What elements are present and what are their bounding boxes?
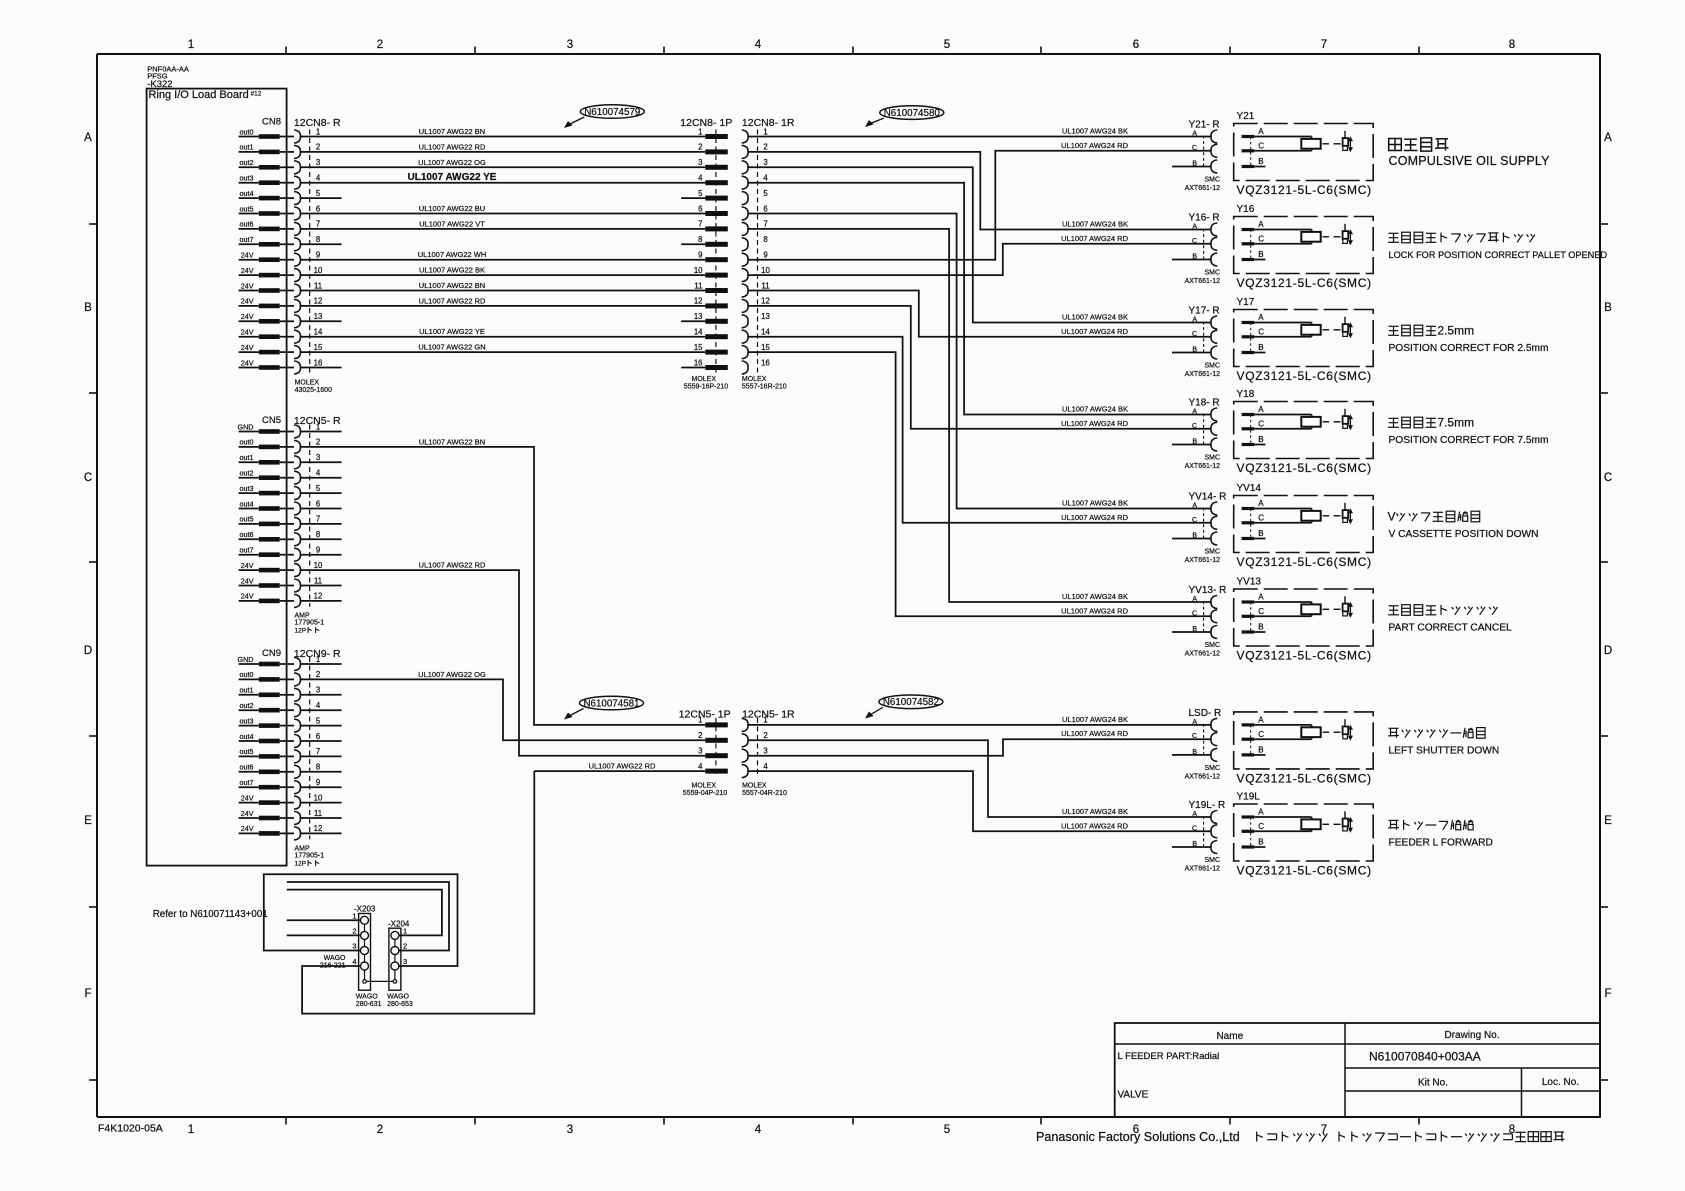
svg-text:UL1007 AWG22 YE: UL1007 AWG22 YE xyxy=(419,327,485,336)
svg-text:Y16- R: Y16- R xyxy=(1189,213,1220,224)
svg-text:15: 15 xyxy=(314,343,323,352)
svg-text:C: C xyxy=(1258,514,1264,523)
svg-text:F: F xyxy=(84,988,91,1000)
svg-text:1: 1 xyxy=(763,127,767,136)
svg-text:3: 3 xyxy=(316,453,320,462)
svg-text:C: C xyxy=(1258,235,1264,244)
svg-text:A: A xyxy=(1258,127,1264,136)
svg-text:7: 7 xyxy=(316,747,320,756)
svg-text:C: C xyxy=(1258,142,1264,151)
svg-text:N610074579: N610074579 xyxy=(584,107,640,118)
svg-text:2: 2 xyxy=(763,731,767,740)
svg-text:1: 1 xyxy=(698,127,702,136)
svg-text:15: 15 xyxy=(761,343,770,352)
svg-text:out6: out6 xyxy=(240,530,254,539)
svg-text:1: 1 xyxy=(188,39,194,51)
svg-text:B: B xyxy=(1258,343,1263,352)
svg-text:out4: out4 xyxy=(240,189,254,198)
svg-text:8: 8 xyxy=(698,235,702,244)
svg-text:SMC: SMC xyxy=(1204,765,1220,772)
svg-text:UL1007 AWG22 RD: UL1007 AWG22 RD xyxy=(419,296,486,305)
svg-text:UL1007 AWG22 RD: UL1007 AWG22 RD xyxy=(589,762,656,771)
svg-text:UL1007 AWG24 RD: UL1007 AWG24 RD xyxy=(1061,141,1128,150)
svg-text:24V: 24V xyxy=(241,793,254,802)
svg-text:7.5mm: 7.5mm xyxy=(1437,415,1474,429)
svg-text:Name: Name xyxy=(1216,1031,1243,1042)
svg-text:VQZ3121-5L-C6(SMC): VQZ3121-5L-C6(SMC) xyxy=(1237,555,1372,569)
svg-text:9: 9 xyxy=(316,778,320,787)
svg-text:3: 3 xyxy=(698,747,702,756)
svg-text:2: 2 xyxy=(316,143,320,152)
svg-text:24V: 24V xyxy=(241,281,254,290)
svg-text:AXT661-12: AXT661-12 xyxy=(1185,866,1221,873)
svg-text:4: 4 xyxy=(763,174,768,183)
svg-text:2: 2 xyxy=(377,39,383,51)
svg-text:9: 9 xyxy=(763,251,767,260)
svg-text:SMC: SMC xyxy=(1204,363,1220,370)
svg-text:2: 2 xyxy=(316,670,320,679)
svg-text:13: 13 xyxy=(314,312,323,321)
svg-text:UL1007 AWG22 RD: UL1007 AWG22 RD xyxy=(419,142,486,151)
svg-text:CN8: CN8 xyxy=(262,117,281,128)
svg-text:out7: out7 xyxy=(240,235,254,244)
svg-text:UL1007 AWG24 RD: UL1007 AWG24 RD xyxy=(1061,729,1128,738)
svg-text:7: 7 xyxy=(316,515,320,524)
svg-text:1: 1 xyxy=(188,1124,194,1136)
svg-text:SMC: SMC xyxy=(1204,857,1220,864)
svg-text:C: C xyxy=(84,472,92,484)
svg-text:L FEEDER PART:Radial: L FEEDER PART:Radial xyxy=(1118,1051,1220,1062)
svg-text:UL1007 AWG22 BN: UL1007 AWG22 BN xyxy=(419,437,485,446)
svg-text:UL1007 AWG24 BK: UL1007 AWG24 BK xyxy=(1062,715,1128,724)
svg-text:5: 5 xyxy=(763,189,768,198)
svg-text:7: 7 xyxy=(698,220,702,229)
svg-text:Y18- R: Y18- R xyxy=(1189,398,1220,409)
svg-text:#12: #12 xyxy=(251,91,262,98)
svg-text:8: 8 xyxy=(316,235,320,244)
svg-text:8: 8 xyxy=(1509,39,1515,51)
svg-text:11: 11 xyxy=(314,281,322,290)
svg-text:F: F xyxy=(1604,988,1611,1000)
svg-text:24V: 24V xyxy=(241,809,254,818)
svg-text:B: B xyxy=(1258,746,1263,755)
svg-text:12CN5- 1P: 12CN5- 1P xyxy=(679,709,731,721)
svg-text:5: 5 xyxy=(944,39,950,51)
svg-text:6: 6 xyxy=(316,499,320,508)
svg-text:C: C xyxy=(1604,472,1612,484)
svg-text:PART CORRECT CANCEL: PART CORRECT CANCEL xyxy=(1389,623,1513,634)
svg-text:VQZ3121-5L-C6(SMC): VQZ3121-5L-C6(SMC) xyxy=(1237,649,1372,663)
svg-text:UL1007 AWG24 BK: UL1007 AWG24 BK xyxy=(1062,220,1128,229)
svg-text:Panasonic Factory Solutions Co: Panasonic Factory Solutions Co.,Ltd xyxy=(1036,1130,1240,1144)
svg-text:7: 7 xyxy=(316,220,320,229)
svg-text:out5: out5 xyxy=(240,747,254,756)
svg-text:A: A xyxy=(1604,132,1612,144)
svg-text:Kit No.: Kit No. xyxy=(1418,1078,1448,1089)
svg-text:UL1007 AWG24 RD: UL1007 AWG24 RD xyxy=(1061,606,1128,615)
svg-text:VQZ3121-5L-C6(SMC): VQZ3121-5L-C6(SMC) xyxy=(1237,369,1372,383)
svg-text:280-631: 280-631 xyxy=(356,1001,382,1008)
svg-text:2: 2 xyxy=(377,1124,383,1136)
svg-text:24V: 24V xyxy=(241,266,254,275)
svg-text:Y17: Y17 xyxy=(1237,297,1255,308)
svg-text:8: 8 xyxy=(316,763,320,772)
svg-text:3: 3 xyxy=(316,686,320,695)
svg-text:VQZ3121-5L-C6(SMC): VQZ3121-5L-C6(SMC) xyxy=(1237,771,1372,785)
svg-text:N610074581: N610074581 xyxy=(583,698,639,709)
svg-text:out1: out1 xyxy=(240,453,254,462)
svg-text:Y21- R: Y21- R xyxy=(1189,120,1220,131)
svg-text:VQZ3121-5L-C6(SMC): VQZ3121-5L-C6(SMC) xyxy=(1237,864,1372,878)
svg-text:4: 4 xyxy=(352,957,356,966)
svg-text:out5: out5 xyxy=(240,515,254,524)
svg-text:1: 1 xyxy=(316,127,320,136)
svg-text:WAGO: WAGO xyxy=(324,955,346,962)
svg-text:24V: 24V xyxy=(241,312,254,321)
svg-text:12: 12 xyxy=(694,297,703,306)
svg-text:24V: 24V xyxy=(241,328,254,337)
svg-text:out0: out0 xyxy=(240,127,254,136)
svg-text:out2: out2 xyxy=(240,701,254,710)
svg-text:Y19L- R: Y19L- R xyxy=(1189,800,1226,811)
svg-text:12P: 12P xyxy=(295,860,307,867)
svg-text:8: 8 xyxy=(763,235,767,244)
svg-text:YV13: YV13 xyxy=(1237,577,1262,588)
svg-text:43025-1600: 43025-1600 xyxy=(295,387,332,394)
svg-text:A: A xyxy=(1258,313,1264,322)
svg-text:LSD- R: LSD- R xyxy=(1189,708,1222,719)
svg-text:A: A xyxy=(1258,808,1264,817)
svg-text:VALVE: VALVE xyxy=(1118,1090,1149,1101)
svg-text:24V: 24V xyxy=(241,592,254,601)
svg-text:B: B xyxy=(1258,529,1263,538)
svg-text:10: 10 xyxy=(694,266,703,275)
svg-text:24V: 24V xyxy=(241,824,254,833)
svg-text:UL1007 AWG24 BK: UL1007 AWG24 BK xyxy=(1062,807,1128,816)
svg-text:E: E xyxy=(84,815,92,827)
svg-text:UL1007 AWG24 BK: UL1007 AWG24 BK xyxy=(1062,127,1128,136)
svg-text:AXT661-12: AXT661-12 xyxy=(1185,557,1221,564)
svg-text:2: 2 xyxy=(352,927,356,936)
svg-text:V: V xyxy=(1388,509,1396,523)
svg-text:YV13- R: YV13- R xyxy=(1189,585,1227,596)
svg-text:MOLEX: MOLEX xyxy=(692,783,717,790)
svg-text:4: 4 xyxy=(316,701,321,710)
svg-text:VQZ3121-5L-C6(SMC): VQZ3121-5L-C6(SMC) xyxy=(1237,183,1372,197)
svg-text:5557-16R-210: 5557-16R-210 xyxy=(742,383,787,390)
svg-text:3: 3 xyxy=(698,158,702,167)
svg-text:CN5: CN5 xyxy=(262,415,281,426)
svg-text:5557-04R-210: 5557-04R-210 xyxy=(742,790,787,797)
svg-text:out7: out7 xyxy=(240,546,254,555)
svg-text:COMPULSIVE OIL SUPPLY: COMPULSIVE OIL SUPPLY xyxy=(1389,154,1551,168)
svg-text:10: 10 xyxy=(761,266,770,275)
svg-text:out4: out4 xyxy=(240,732,254,741)
svg-text:5: 5 xyxy=(316,189,321,198)
svg-text:5: 5 xyxy=(316,716,321,725)
svg-text:Refer to N610071143+001: Refer to N610071143+001 xyxy=(153,909,268,920)
svg-text:A: A xyxy=(1258,405,1264,414)
svg-text:8: 8 xyxy=(316,530,320,539)
svg-text:9: 9 xyxy=(316,546,320,555)
svg-text:2: 2 xyxy=(403,942,407,951)
svg-text:1: 1 xyxy=(763,716,767,725)
svg-text:C: C xyxy=(1258,420,1264,429)
svg-text:Y21: Y21 xyxy=(1237,111,1255,122)
svg-text:UL1007 AWG24 BK: UL1007 AWG24 BK xyxy=(1062,405,1128,414)
svg-text:SMC: SMC xyxy=(1204,549,1220,556)
svg-text:UL1007 AWG22 OG: UL1007 AWG22 OG xyxy=(418,158,486,167)
svg-text:B: B xyxy=(84,302,92,314)
svg-text:C: C xyxy=(1258,822,1264,831)
svg-text:AXT661-12: AXT661-12 xyxy=(1185,463,1221,470)
svg-text:F4K1020-05A: F4K1020-05A xyxy=(98,1123,163,1135)
svg-text:4: 4 xyxy=(763,762,768,771)
svg-text:AXT661-12: AXT661-12 xyxy=(1185,651,1221,658)
svg-text:B: B xyxy=(1258,250,1263,259)
svg-text:Y16: Y16 xyxy=(1237,204,1255,215)
svg-text:B: B xyxy=(1258,838,1263,847)
svg-text:5: 5 xyxy=(316,484,321,493)
svg-text:10: 10 xyxy=(314,793,323,802)
svg-text:out6: out6 xyxy=(240,220,254,229)
svg-text:A: A xyxy=(84,132,92,144)
svg-text:AXT661-12: AXT661-12 xyxy=(1185,371,1221,378)
svg-text:14: 14 xyxy=(761,328,770,337)
svg-text:9: 9 xyxy=(698,251,702,260)
svg-text:15: 15 xyxy=(694,343,703,352)
svg-text:2: 2 xyxy=(698,731,702,740)
svg-text:24V: 24V xyxy=(241,358,254,367)
svg-text:A: A xyxy=(1258,499,1264,508)
svg-text:12P: 12P xyxy=(295,627,307,634)
svg-text:4: 4 xyxy=(698,762,703,771)
svg-text:14: 14 xyxy=(694,328,703,337)
svg-text:V CASSETTE POSITION DOWN: V CASSETTE POSITION DOWN xyxy=(1389,529,1539,540)
svg-text:WAGO: WAGO xyxy=(387,994,409,1001)
svg-text:3: 3 xyxy=(352,942,356,951)
svg-text:6: 6 xyxy=(316,204,320,213)
svg-text:177905-1: 177905-1 xyxy=(295,853,325,860)
svg-text:10: 10 xyxy=(314,266,323,275)
svg-text:UL1007 AWG22 VT: UL1007 AWG22 VT xyxy=(419,219,485,228)
svg-text:4: 4 xyxy=(316,174,321,183)
svg-text:UL1007 AWG22 BU: UL1007 AWG22 BU xyxy=(419,204,485,213)
svg-text:7: 7 xyxy=(763,220,767,229)
svg-text:CN9: CN9 xyxy=(262,648,281,659)
svg-text:12CN8- 1R: 12CN8- 1R xyxy=(742,117,795,129)
svg-text:B: B xyxy=(1258,623,1263,632)
svg-text:WAGO: WAGO xyxy=(356,994,378,1001)
svg-text:C: C xyxy=(1258,730,1264,739)
svg-text:UL1007 AWG22 GN: UL1007 AWG22 GN xyxy=(418,343,485,352)
svg-text:12: 12 xyxy=(314,592,323,601)
svg-text:SMC: SMC xyxy=(1204,270,1220,277)
svg-text:out7: out7 xyxy=(240,778,254,787)
svg-text:13: 13 xyxy=(694,312,703,321)
svg-text:16: 16 xyxy=(761,358,770,367)
svg-text:E: E xyxy=(1604,815,1612,827)
svg-text:A: A xyxy=(1258,716,1264,725)
svg-text:A: A xyxy=(1258,220,1264,229)
svg-text:12: 12 xyxy=(314,297,323,306)
svg-text:4: 4 xyxy=(316,469,321,478)
svg-text:Y18: Y18 xyxy=(1237,389,1255,400)
svg-text:280-653: 280-653 xyxy=(387,1001,413,1008)
svg-text:UL1007 AWG22 BN: UL1007 AWG22 BN xyxy=(419,281,485,290)
svg-text:D: D xyxy=(1604,645,1612,657)
svg-text:out3: out3 xyxy=(240,174,254,183)
svg-text:5: 5 xyxy=(698,189,703,198)
svg-text:24V: 24V xyxy=(241,576,254,585)
svg-text:24V: 24V xyxy=(241,297,254,306)
svg-text:AXT661-12: AXT661-12 xyxy=(1185,185,1221,192)
svg-text:POSITION CORRECT FOR 2.5mm: POSITION CORRECT FOR 2.5mm xyxy=(1389,343,1549,354)
svg-text:GND: GND xyxy=(238,422,254,431)
svg-text:10: 10 xyxy=(314,561,323,570)
svg-text:out3: out3 xyxy=(240,716,254,725)
svg-text:177905-1: 177905-1 xyxy=(295,620,325,627)
svg-text:D: D xyxy=(84,645,92,657)
svg-text:VQZ3121-5L-C6(SMC): VQZ3121-5L-C6(SMC) xyxy=(1237,276,1372,290)
svg-text:N610070840+003AA: N610070840+003AA xyxy=(1369,1050,1481,1064)
svg-text:A: A xyxy=(1258,593,1264,602)
svg-text:SMC: SMC xyxy=(1204,642,1220,649)
svg-text:6: 6 xyxy=(316,732,320,741)
svg-text:UL1007 AWG24 RD: UL1007 AWG24 RD xyxy=(1061,234,1128,243)
svg-text:N610074582: N610074582 xyxy=(883,697,939,708)
svg-text:MOLEX: MOLEX xyxy=(742,376,767,383)
svg-text:UL1007 AWG24 RD: UL1007 AWG24 RD xyxy=(1061,513,1128,522)
svg-text:5559-16P-210: 5559-16P-210 xyxy=(684,383,728,390)
svg-text:MOLEX: MOLEX xyxy=(692,376,717,383)
svg-text:UL1007 AWG22 OG: UL1007 AWG22 OG xyxy=(418,670,486,679)
svg-text:UL1007 AWG24 RD: UL1007 AWG24 RD xyxy=(1061,821,1128,830)
svg-text:C: C xyxy=(1258,607,1264,616)
svg-text:4: 4 xyxy=(698,174,703,183)
svg-text:out6: out6 xyxy=(240,763,254,772)
svg-text:11: 11 xyxy=(694,281,702,290)
svg-text:4: 4 xyxy=(755,39,762,51)
svg-text:9: 9 xyxy=(316,251,320,260)
svg-text:UL1007 AWG22 WH: UL1007 AWG22 WH xyxy=(418,250,487,259)
svg-text:GND: GND xyxy=(238,655,254,664)
svg-text:24V: 24V xyxy=(241,561,254,570)
svg-text:UL1007 AWG24 RD: UL1007 AWG24 RD xyxy=(1061,419,1128,428)
svg-text:3: 3 xyxy=(403,957,407,966)
svg-text:Ring I/O Load Board: Ring I/O Load Board xyxy=(149,89,249,101)
svg-text:3: 3 xyxy=(567,1124,573,1136)
svg-text:UL1007 AWG24 BK: UL1007 AWG24 BK xyxy=(1062,313,1128,322)
svg-text:AXT661-12: AXT661-12 xyxy=(1185,773,1221,780)
svg-text:MOLEX: MOLEX xyxy=(742,783,767,790)
svg-text:1: 1 xyxy=(698,716,702,725)
svg-text:4: 4 xyxy=(755,1124,762,1136)
svg-text:-X204: -X204 xyxy=(388,920,410,929)
svg-text:LOCK FOR POSITION CORRECT PALL: LOCK FOR POSITION CORRECT PALLET OPENED xyxy=(1389,250,1608,260)
svg-text:out5: out5 xyxy=(240,204,254,213)
svg-text:12: 12 xyxy=(761,297,770,306)
svg-text:out1: out1 xyxy=(240,143,254,152)
svg-text:3: 3 xyxy=(567,39,573,51)
svg-text:16: 16 xyxy=(314,358,323,367)
svg-text:24V: 24V xyxy=(241,251,254,260)
svg-text:B: B xyxy=(1604,302,1612,314)
svg-text:UL1007 AWG24 RD: UL1007 AWG24 RD xyxy=(1061,327,1128,336)
svg-text:-X203: -X203 xyxy=(354,905,376,914)
svg-text:6: 6 xyxy=(763,204,767,213)
svg-text:11: 11 xyxy=(761,281,769,290)
svg-text:out1: out1 xyxy=(240,686,254,695)
svg-text:11: 11 xyxy=(314,809,322,818)
svg-text:14: 14 xyxy=(314,328,323,337)
svg-text:2: 2 xyxy=(763,143,767,152)
svg-text:UL1007 AWG22 RD: UL1007 AWG22 RD xyxy=(419,561,486,570)
svg-text:FEEDER L FORWARD: FEEDER L FORWARD xyxy=(1389,838,1493,849)
svg-text:3: 3 xyxy=(763,747,767,756)
svg-text:YV14- R: YV14- R xyxy=(1189,492,1227,503)
svg-text:2.5mm: 2.5mm xyxy=(1437,323,1474,337)
svg-text:LEFT SHUTTER DOWN: LEFT SHUTTER DOWN xyxy=(1389,745,1500,756)
svg-text:B: B xyxy=(1258,435,1263,444)
svg-text:AMP: AMP xyxy=(295,846,311,853)
svg-text:UL1007 AWG24 BK: UL1007 AWG24 BK xyxy=(1062,499,1128,508)
svg-text:SMC: SMC xyxy=(1204,455,1220,462)
svg-text:N610074580: N610074580 xyxy=(884,108,941,119)
svg-text:Y17- R: Y17- R xyxy=(1189,306,1220,317)
svg-text:out2: out2 xyxy=(240,469,254,478)
svg-text:YV14: YV14 xyxy=(1237,483,1262,494)
svg-text:UL1007 AWG24 BK: UL1007 AWG24 BK xyxy=(1062,592,1128,601)
svg-text:3: 3 xyxy=(316,158,320,167)
svg-text:24V: 24V xyxy=(241,343,254,352)
svg-text:2: 2 xyxy=(698,143,702,152)
svg-text:UL1007 AWG22 BN: UL1007 AWG22 BN xyxy=(419,127,485,136)
svg-text:UL1007 AWG22 YE: UL1007 AWG22 YE xyxy=(408,172,497,183)
svg-text:SMC: SMC xyxy=(1204,177,1220,184)
svg-text:5: 5 xyxy=(944,1124,950,1136)
svg-text:1: 1 xyxy=(316,422,320,431)
svg-text:12CN5- 1R: 12CN5- 1R xyxy=(742,709,795,721)
svg-text:out3: out3 xyxy=(240,484,254,493)
svg-text:12: 12 xyxy=(314,824,323,833)
svg-text:out4: out4 xyxy=(240,499,254,508)
svg-text:out0: out0 xyxy=(240,670,254,679)
svg-text:Loc. No.: Loc. No. xyxy=(1542,1077,1579,1088)
svg-text:7: 7 xyxy=(1321,39,1327,51)
svg-text:5559-04P-210: 5559-04P-210 xyxy=(683,790,727,797)
svg-text:B: B xyxy=(1258,157,1263,166)
svg-text:Drawing No.: Drawing No. xyxy=(1444,1030,1499,1041)
svg-text:AXT661-12: AXT661-12 xyxy=(1185,278,1221,285)
svg-text:AMP: AMP xyxy=(295,613,311,620)
svg-text:POSITION CORRECT FOR 7.5mm: POSITION CORRECT FOR 7.5mm xyxy=(1389,435,1549,446)
svg-text:C: C xyxy=(1258,328,1264,337)
svg-text:UL1007 AWG22 BK: UL1007 AWG22 BK xyxy=(419,266,485,275)
svg-text:Y19L: Y19L xyxy=(1237,792,1261,803)
svg-text:1: 1 xyxy=(316,655,320,664)
svg-text:6: 6 xyxy=(698,204,702,213)
svg-text:out0: out0 xyxy=(240,438,254,447)
svg-text:3: 3 xyxy=(763,158,767,167)
svg-text:out2: out2 xyxy=(240,158,254,167)
svg-text:MOLEX: MOLEX xyxy=(295,380,320,387)
svg-text:12CN8- 1P: 12CN8- 1P xyxy=(680,117,732,129)
svg-text:VQZ3121-5L-C6(SMC): VQZ3121-5L-C6(SMC) xyxy=(1237,461,1372,475)
svg-text:13: 13 xyxy=(761,312,770,321)
svg-text:16: 16 xyxy=(694,358,703,367)
svg-text:6: 6 xyxy=(1133,39,1139,51)
